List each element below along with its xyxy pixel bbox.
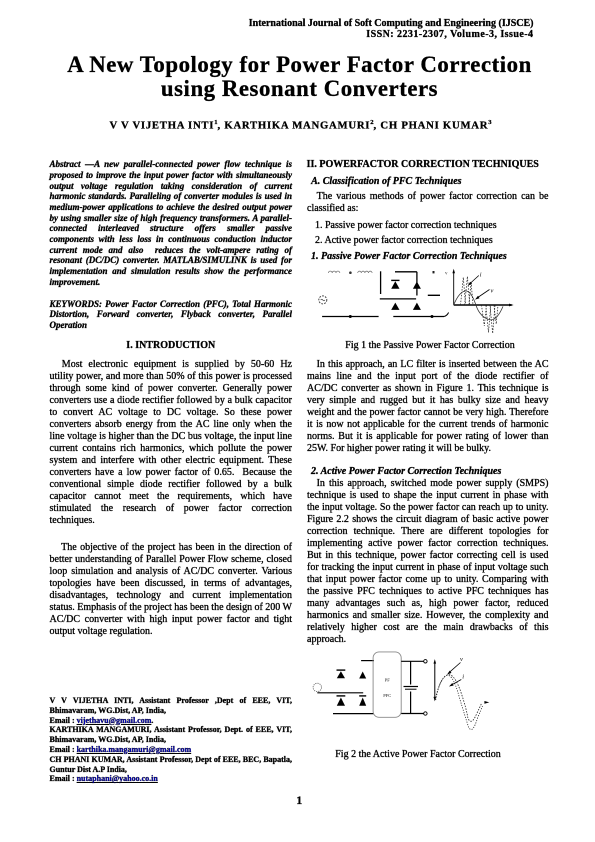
- intro paragraph 1: [50, 359, 293, 527]
- junction dot: [349, 315, 352, 318]
- figure 1 caption: [309, 340, 551, 352]
- diode D4: [413, 303, 421, 310]
- figure 2: [307, 650, 507, 746]
- current spikes negative: [482, 305, 499, 333]
- diode D2: [359, 672, 366, 679]
- current spikes positive: [461, 276, 474, 305]
- bottom wire right segment: [393, 316, 444, 318]
- inductor L2 coil: [358, 271, 372, 273]
- journal header: [249, 18, 534, 42]
- svg-text:v: v: [460, 656, 463, 663]
- wire bridge left vertical: [380, 271, 382, 294]
- axis arrow right: [484, 701, 489, 704]
- section heading I: [50, 340, 293, 352]
- node dot: [349, 271, 352, 274]
- diode D1: [337, 669, 346, 671]
- junction dot: [431, 315, 434, 318]
- switch tick: [444, 313, 449, 317]
- waveform vertical axis: [453, 272, 455, 305]
- page number: [279, 794, 319, 806]
- capacitor C plate: [428, 294, 440, 296]
- authors: [3, 117, 595, 132]
- wire bridge right vertical: [416, 272, 418, 296]
- affiliations: [50, 696, 293, 784]
- wire bridge top: [395, 271, 417, 273]
- diode D2: [413, 282, 421, 289]
- diode D1: [391, 279, 399, 281]
- list item 2: [315, 235, 493, 247]
- wire from source: [317, 692, 363, 694]
- keywords: [50, 299, 293, 331]
- heading 1. Passive: [311, 251, 507, 263]
- capacitor C: [410, 661, 412, 684]
- PFC cell box: [373, 652, 401, 717]
- svg-text:PFC: PFC: [383, 693, 391, 698]
- wire bottom to box: [333, 713, 374, 715]
- wire bridge mid rail: [380, 298, 416, 300]
- figure 2 caption: [297, 749, 539, 761]
- voltage sine wave: [454, 291, 503, 320]
- AC source: [319, 296, 327, 304]
- sine v dashed: [436, 675, 482, 722]
- right col paragraph: [307, 191, 549, 215]
- wire box to output bottom: [401, 713, 424, 715]
- heading 2. Active: [311, 466, 501, 478]
- section heading II: [307, 159, 539, 171]
- right col paragraph after fig1: [307, 359, 549, 455]
- diode D3: [391, 303, 399, 310]
- bottom wire left segment: [322, 316, 379, 318]
- svg-text:PF: PF: [385, 678, 391, 683]
- sine i dashed: [436, 675, 483, 729]
- output terminal bottom: [424, 712, 427, 715]
- paper title: [2, 53, 595, 102]
- diode D3: [337, 695, 346, 697]
- svg-text:i: i: [480, 272, 482, 279]
- diode D4: [359, 695, 366, 697]
- intro paragraph 2: [50, 542, 293, 638]
- wire box to output top: [401, 660, 424, 662]
- AC source: [313, 683, 321, 691]
- right col paragraph 2: [307, 478, 549, 646]
- svg-text:i: i: [462, 674, 464, 681]
- svg-text:v: v: [491, 288, 494, 295]
- abstract: [50, 159, 293, 287]
- output terminal top: [424, 660, 427, 663]
- wire top to box: [361, 660, 374, 662]
- inductor L1 coil: [328, 271, 339, 273]
- list item 1: [315, 220, 497, 232]
- heading A: [311, 176, 461, 188]
- svg-text:v: v: [445, 272, 448, 277]
- waveform vertical axis: [434, 662, 436, 699]
- waveform horizontal axis: [454, 304, 512, 306]
- figure 1: [307, 262, 552, 342]
- node tick: [433, 271, 435, 273]
